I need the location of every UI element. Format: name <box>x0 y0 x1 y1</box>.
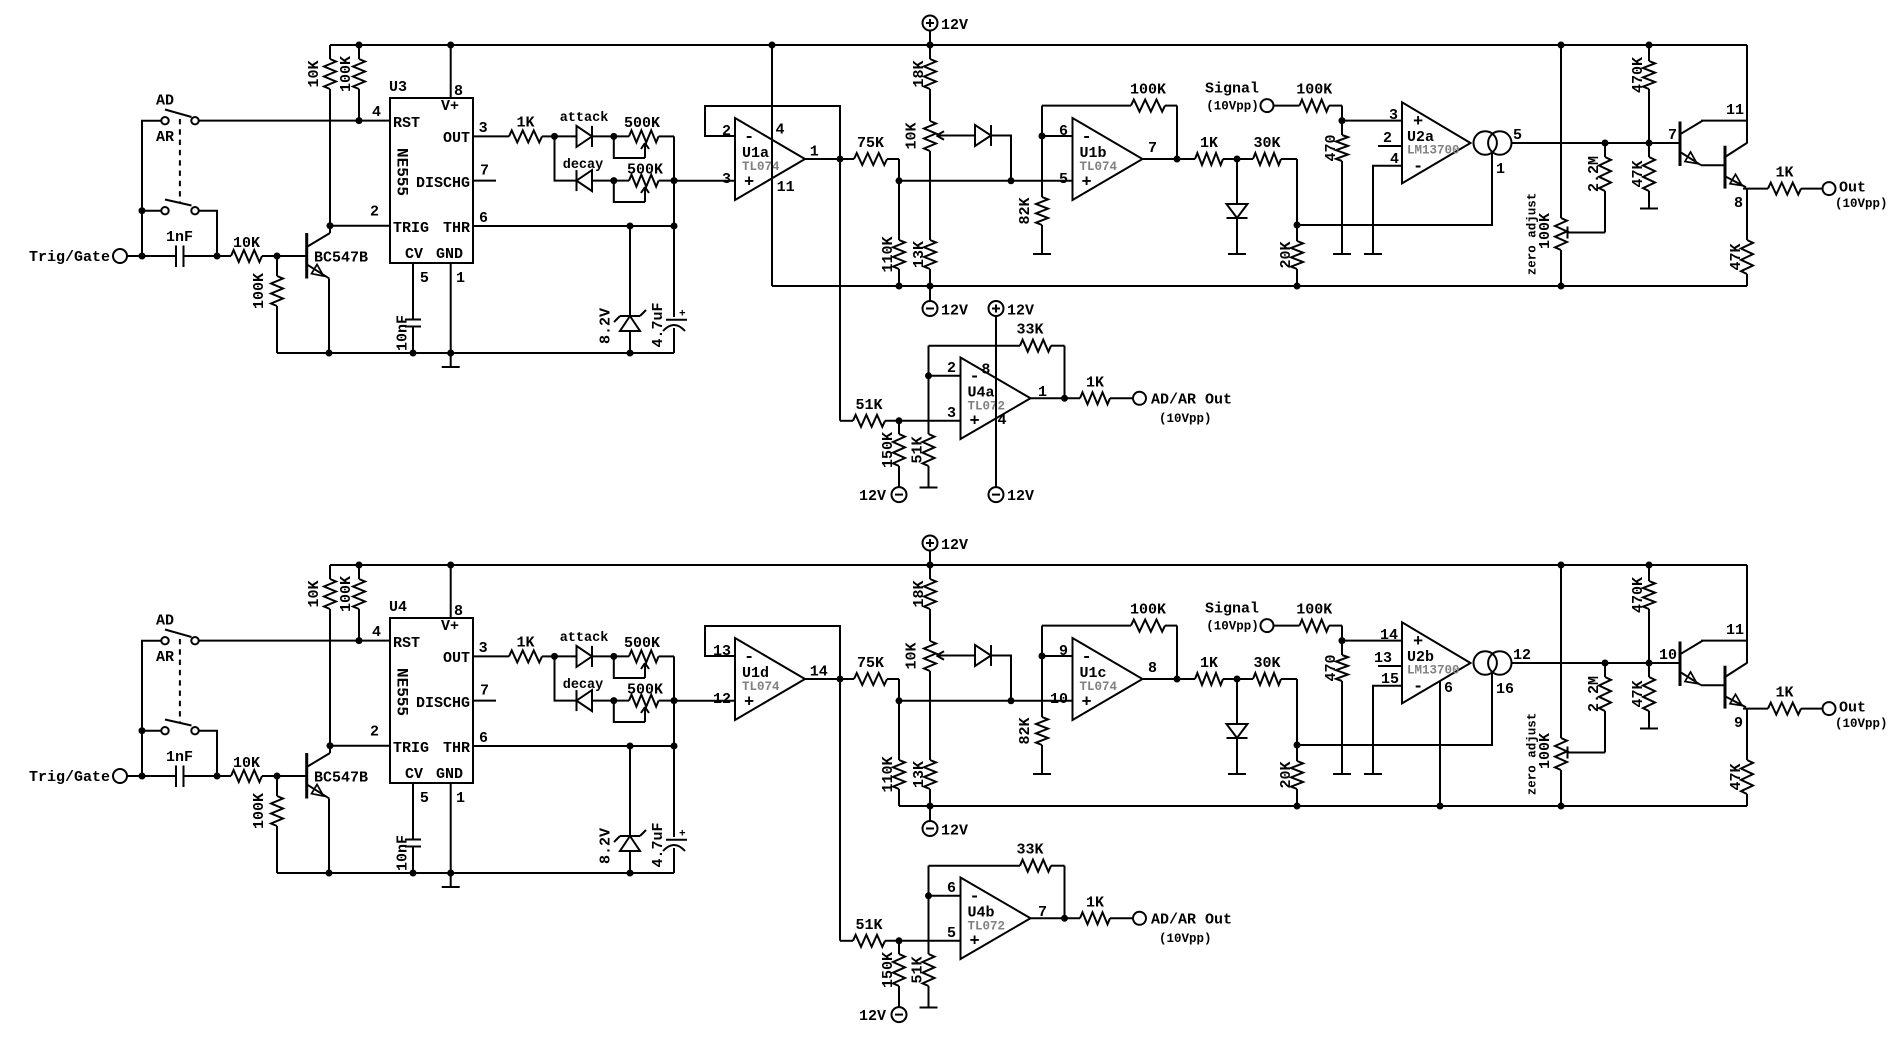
resistor 10K base <box>231 755 262 782</box>
op-amp U4b TL072 <box>961 878 1031 960</box>
svg-text:GND: GND <box>436 766 463 783</box>
node 20K junction <box>1294 222 1301 229</box>
wire AD to RST <box>199 120 390 122</box>
node pot-rail-top <box>1558 42 1565 49</box>
capacitor 10nF <box>395 783 422 873</box>
wire cap to 10K <box>184 255 232 257</box>
resistor 20K <box>1278 225 1303 286</box>
wire input to cap <box>127 775 176 777</box>
svg-text:100K: 100K <box>338 576 355 612</box>
svg-text:100K: 100K <box>1130 602 1166 619</box>
node 470K-rail <box>1646 42 1653 49</box>
resistor 1K oa2 <box>1195 655 1237 685</box>
wire collector to TRIG <box>329 746 331 753</box>
wire TL074 power pins 4/11 <box>771 45 773 286</box>
wire +12V stub <box>929 31 931 46</box>
node 13K-rail <box>927 803 934 810</box>
wire emitter to 47K <box>1746 709 1748 760</box>
wire diode2 drop <box>1236 679 1238 724</box>
transistor buffer Q1b (pin 8 emitter) <box>1701 143 1747 189</box>
svg-text:12V: 12V <box>941 303 968 320</box>
svg-text:3: 3 <box>722 171 731 188</box>
node pot-rail-bot <box>1558 803 1565 810</box>
svg-text:THR: THR <box>443 740 470 757</box>
wire oa1 feedback loop <box>705 626 840 941</box>
node 20K junction <box>1294 742 1301 749</box>
svg-text:12V: 12V <box>941 537 968 554</box>
svg-text:13: 13 <box>1374 650 1392 667</box>
resistor 150K <box>880 421 905 487</box>
wire 75K corner <box>898 159 900 181</box>
OTA U2b LM13700 <box>1402 622 1471 703</box>
wire +12V stub <box>929 551 931 566</box>
resistor 1K adar <box>1080 374 1133 404</box>
svg-text:AD/AR Out: AD/AR Out <box>1151 392 1232 409</box>
wire 33K down <box>1064 346 1066 399</box>
node 10nF-rail <box>410 870 417 877</box>
svg-text:DISCHG: DISCHG <box>416 175 470 192</box>
wire attack-decay right vertical <box>673 136 675 317</box>
node 2.2M top <box>1602 660 1609 667</box>
svg-text:47K: 47K <box>1728 763 1745 790</box>
wire bottom rail ch <box>277 872 674 874</box>
svg-text:DISCHG: DISCHG <box>416 695 470 712</box>
wire AD to RST <box>199 640 390 642</box>
node cv-mix <box>1008 177 1015 184</box>
svg-text:4: 4 <box>776 122 785 139</box>
wire ota pin6 V- <box>1439 681 1441 806</box>
svg-text:5: 5 <box>1059 171 1068 188</box>
svg-text:V+: V+ <box>441 618 459 635</box>
wire +12V top rail <box>330 564 1747 566</box>
svg-text:9: 9 <box>1734 715 1743 732</box>
svg-text:100K: 100K <box>1296 602 1332 619</box>
wire terminal up-branch <box>142 641 161 776</box>
resistor 13K <box>911 671 936 806</box>
ground 555 <box>442 366 460 368</box>
resistor 47K base <box>1630 663 1655 729</box>
zener diode 8.2V <box>614 830 646 851</box>
transistor buffer Q2a (pin 10 base) <box>1680 641 1703 686</box>
svg-text:6: 6 <box>947 880 956 897</box>
wire signal corner <box>1341 106 1343 121</box>
node pin8-rail <box>447 562 454 569</box>
svg-text:1K: 1K <box>1200 135 1218 152</box>
terminal Trig/Gate input ch1 <box>29 249 127 266</box>
node input junction <box>139 773 146 780</box>
resistor 1K adar <box>1080 894 1133 924</box>
resistor 110K <box>880 701 905 806</box>
svg-text:12V: 12V <box>941 823 968 840</box>
node switch-drop junction <box>214 253 221 260</box>
svg-text:14: 14 <box>810 664 828 681</box>
ground 470 <box>1333 253 1351 255</box>
node signal-470 <box>1339 637 1346 644</box>
node 470K-rail <box>1646 562 1653 569</box>
resistor 33K feedback <box>929 860 1065 872</box>
svg-text:+: + <box>744 693 754 712</box>
ground 47K <box>1640 208 1658 210</box>
diode to ground <box>1227 204 1248 218</box>
wire oa1 plus input <box>674 180 735 182</box>
svg-text:10nF: 10nF <box>395 315 412 351</box>
svg-text:1: 1 <box>810 144 819 161</box>
potentiometer 500K attack <box>614 115 674 158</box>
node base junction <box>274 253 281 260</box>
svg-text:1K: 1K <box>1086 894 1104 911</box>
svg-text:470K: 470K <box>1630 577 1647 613</box>
node pin6-rail <box>1437 803 1444 810</box>
svg-text:RST: RST <box>393 115 420 132</box>
svg-text:8.2V: 8.2V <box>598 308 615 344</box>
node decay-pot-left <box>610 697 617 704</box>
svg-text:TL074: TL074 <box>742 680 780 694</box>
svg-text:2.2M: 2.2M <box>1586 156 1603 192</box>
wire feedback up <box>928 346 930 376</box>
svg-text:11: 11 <box>1726 102 1744 119</box>
wire cv diode corner <box>991 136 1011 181</box>
svg-text:1nF: 1nF <box>166 749 193 766</box>
wire u4 output <box>1031 397 1081 399</box>
potentiometer 500K attack <box>614 635 674 678</box>
svg-text:AR: AR <box>156 649 174 666</box>
node zener-THR <box>627 223 634 230</box>
svg-text:82K: 82K <box>1017 197 1034 224</box>
node u4 output <box>1061 395 1068 402</box>
svg-text:+: + <box>679 309 686 321</box>
svg-text:Signal: Signal <box>1205 601 1259 618</box>
svg-text:100K: 100K <box>1537 213 1554 249</box>
wire oa2 minus stub <box>1042 655 1073 657</box>
resistor 10K pullup <box>306 565 336 746</box>
wire AR to cap-node <box>199 731 217 776</box>
wire feedback down <box>1176 106 1178 159</box>
node input junction <box>139 253 146 260</box>
svg-text:+: + <box>1082 693 1092 712</box>
op-amp U1d TL074 <box>735 638 805 720</box>
node AR branch junction <box>139 727 146 734</box>
svg-text:1K: 1K <box>1086 374 1104 391</box>
svg-text:LM13700: LM13700 <box>1407 144 1460 158</box>
svg-text:4: 4 <box>998 412 1007 429</box>
svg-text:30K: 30K <box>1253 135 1280 152</box>
svg-text:zero adjust: zero adjust <box>1526 713 1540 796</box>
svg-text:51K: 51K <box>910 436 927 463</box>
ground diode <box>1228 773 1246 775</box>
wire diode2 to gnd <box>1236 738 1238 774</box>
node zener-rail <box>627 350 634 357</box>
svg-text:150K: 150K <box>880 952 897 988</box>
svg-text:500K: 500K <box>627 682 663 699</box>
dashed switch link <box>179 119 181 202</box>
svg-text:10K: 10K <box>233 755 260 772</box>
svg-text:14: 14 <box>1380 627 1398 644</box>
resistor 47K emitter <box>1728 709 1753 806</box>
node 100K-top <box>356 562 363 569</box>
node attack-pot-left <box>610 133 617 140</box>
ground 51K <box>920 487 938 489</box>
resistor 47K emitter <box>1728 189 1753 286</box>
svg-text:LM13700: LM13700 <box>1407 664 1460 678</box>
svg-text:-: - <box>1413 158 1423 177</box>
node decay-out <box>671 697 678 704</box>
svg-text:U3: U3 <box>389 79 407 96</box>
wire ota minus <box>1373 166 1402 254</box>
node 470K bottom <box>1646 140 1653 147</box>
resistor 1K out <box>1768 685 1823 715</box>
power -12V U4 <box>989 487 1035 505</box>
node mix <box>896 177 903 184</box>
wire decay branch down <box>555 136 577 180</box>
OTA U2a LM13700 <box>1402 102 1471 183</box>
ground 555 <box>442 886 460 888</box>
svg-text:47K: 47K <box>1630 160 1647 187</box>
wire TRIG pin2 <box>330 745 390 747</box>
diode cv <box>975 645 991 666</box>
resistor 100K to rail2 <box>251 256 283 353</box>
svg-text:1K: 1K <box>516 634 534 651</box>
wiper tick <box>1567 227 1569 239</box>
wire V+ drop <box>1746 45 1748 143</box>
svg-text:75K: 75K <box>857 655 884 672</box>
svg-text:GND: GND <box>436 246 463 263</box>
OTA output symbol <box>1474 131 1512 154</box>
svg-text:10: 10 <box>1050 691 1068 708</box>
wire oa2 minus stub <box>1042 135 1073 137</box>
wire emitter node <box>1743 708 1768 710</box>
svg-text:11: 11 <box>777 179 795 196</box>
svg-text:8: 8 <box>1148 660 1157 677</box>
svg-text:3: 3 <box>479 640 488 657</box>
node 1K-diodes <box>551 133 558 140</box>
svg-text:5: 5 <box>420 270 429 287</box>
svg-text:(10Vpp): (10Vpp) <box>1206 619 1259 633</box>
svg-text:AR: AR <box>156 129 174 146</box>
svg-text:TL074: TL074 <box>1080 680 1118 694</box>
resistor 10K pullup <box>306 45 336 226</box>
wire emitter to rail2 <box>328 278 330 353</box>
wire u4 output <box>1031 917 1081 919</box>
wire oa2 output <box>1143 158 1195 160</box>
node oa1 output-feedback <box>837 676 844 683</box>
wire V+ drop <box>1746 565 1748 663</box>
svg-text:(10Vpp): (10Vpp) <box>1206 99 1259 113</box>
svg-text:51K: 51K <box>855 917 882 934</box>
power -12V mid <box>923 821 969 840</box>
wire decay diode to pot <box>592 700 629 702</box>
svg-text:12V: 12V <box>859 1008 886 1025</box>
svg-text:12V: 12V <box>1007 303 1034 320</box>
svg-text:10K: 10K <box>904 122 921 149</box>
svg-text:10nF: 10nF <box>395 835 412 871</box>
node decay-pot-left <box>610 177 617 184</box>
power -12V mid <box>923 301 969 320</box>
node plus-junction <box>896 937 903 944</box>
svg-text:75K: 75K <box>857 135 884 152</box>
resistor 75K <box>854 655 899 685</box>
resistor 1K out555 <box>473 634 555 662</box>
svg-text:100K: 100K <box>1537 733 1554 769</box>
node 12V-rail <box>927 562 934 569</box>
svg-text:Trig/Gate: Trig/Gate <box>29 769 110 786</box>
svg-text:Out: Out <box>1839 180 1866 197</box>
diode attack <box>577 646 593 667</box>
svg-text:33K: 33K <box>1016 842 1043 859</box>
svg-text:500K: 500K <box>624 635 660 652</box>
svg-text:1K: 1K <box>1775 685 1793 702</box>
svg-text:1: 1 <box>456 790 465 807</box>
wire ota bias line <box>1297 673 1492 745</box>
wire THR pin6 <box>473 745 674 747</box>
svg-text:13K: 13K <box>911 761 928 788</box>
svg-text:8: 8 <box>454 603 463 620</box>
switch AD <box>161 110 198 125</box>
ota pin stub <box>1378 145 1402 147</box>
capacitor 1nF <box>166 749 193 787</box>
svg-text:82K: 82K <box>1017 717 1034 744</box>
svg-text:100K: 100K <box>338 56 355 92</box>
svg-text:470K: 470K <box>1630 57 1647 93</box>
node pot-rail-top <box>1558 562 1565 569</box>
svg-text:12V: 12V <box>941 17 968 34</box>
wire to attack diode <box>555 135 577 137</box>
switch AD <box>161 630 198 645</box>
wire decay branch down <box>555 656 577 700</box>
capacitor 1nF <box>166 229 193 267</box>
wire diode2 drop <box>1236 159 1238 204</box>
svg-text:1: 1 <box>1496 161 1505 178</box>
power -12V for 150K <box>859 487 907 505</box>
terminal Trig/Gate input ch2 <box>29 769 127 786</box>
wire cap to 10K <box>184 775 232 777</box>
svg-text:5: 5 <box>420 790 429 807</box>
wire TRIG pin2 <box>330 225 390 227</box>
svg-text:51K: 51K <box>910 956 927 983</box>
svg-text:AD: AD <box>156 613 174 630</box>
wire zener drop <box>629 226 631 316</box>
node minus-junction <box>925 892 932 899</box>
wire attack diode to pot <box>592 655 629 657</box>
pin 7 DISCHG stub <box>473 180 496 182</box>
wire feedback up <box>928 866 930 896</box>
resistor 82K <box>1017 656 1048 774</box>
node switch-drop junction <box>214 773 221 780</box>
svg-text:7: 7 <box>1148 140 1157 157</box>
wire oa1 output <box>805 158 854 160</box>
IC U4 NE555 timer <box>389 599 473 783</box>
diode decay <box>577 690 593 711</box>
wire zener drop <box>629 746 631 836</box>
op-amp U4a TL072 <box>961 358 1031 440</box>
wire V+ pin8 drop <box>995 316 997 487</box>
wire oa2 output <box>1143 678 1195 680</box>
node pin8-rail <box>447 42 454 49</box>
svg-text:attack: attack <box>560 111 609 126</box>
ground 47K <box>1640 728 1658 730</box>
wire attack-decay right vertical <box>673 656 675 837</box>
node 10nF-rail <box>410 350 417 357</box>
zener diode 8.2V <box>614 310 646 331</box>
resistor 470K <box>1630 45 1655 143</box>
ground 82K <box>1033 773 1051 775</box>
svg-text:NE555: NE555 <box>393 668 411 716</box>
resistor 2.2M <box>1586 663 1611 753</box>
svg-text:51K: 51K <box>855 397 882 414</box>
svg-text:2: 2 <box>722 123 731 140</box>
node u4 output <box>1061 915 1068 922</box>
IC U3 NE555 timer <box>389 79 473 263</box>
svg-text:6: 6 <box>1444 680 1453 697</box>
wire zener to rail <box>629 851 631 873</box>
node emitter-rail <box>326 350 333 357</box>
power +12V U4 <box>989 301 1035 320</box>
svg-text:V+: V+ <box>441 98 459 115</box>
wire bottom rail ch <box>277 352 674 354</box>
node oa2 out <box>1174 156 1181 163</box>
transistor buffer Q2b (pin 9 emitter) <box>1701 663 1747 709</box>
wire mix line <box>899 180 1073 182</box>
svg-text:2.2M: 2.2M <box>1586 676 1603 712</box>
svg-text:4.7uF: 4.7uF <box>650 302 667 347</box>
resistor 1K out <box>1768 165 1823 195</box>
wire attack diode to pot <box>592 135 629 137</box>
node 1K-30K <box>1234 156 1241 163</box>
wire V+ pin8 stub <box>450 565 452 618</box>
node oa1 output-feedback <box>837 156 844 163</box>
svg-text:4: 4 <box>372 624 381 641</box>
wire 2.2M to wiper <box>1567 232 1605 234</box>
svg-text:20K: 20K <box>1278 241 1295 268</box>
node base junction <box>274 773 281 780</box>
svg-text:500K: 500K <box>627 162 663 179</box>
svg-text:30K: 30K <box>1253 655 1280 672</box>
node 20K-rail <box>1294 803 1301 810</box>
svg-text:7: 7 <box>480 683 489 700</box>
svg-text:THR: THR <box>443 220 470 237</box>
wire V+ pin8 stub <box>450 45 452 98</box>
ground ota minus <box>1364 253 1382 255</box>
node TRIG junction <box>327 222 334 229</box>
svg-text:1K: 1K <box>1200 655 1218 672</box>
svg-text:1K: 1K <box>516 114 534 131</box>
terminal Out <box>1823 180 1888 212</box>
svg-text:33K: 33K <box>1016 322 1043 339</box>
svg-text:TRIG: TRIG <box>393 740 429 757</box>
svg-text:110K: 110K <box>880 236 897 272</box>
resistor 100K signal <box>1274 602 1343 632</box>
node mix <box>896 697 903 704</box>
wire oa2 feedback up <box>1041 106 1043 136</box>
resistor 1K out555 <box>473 114 555 142</box>
node 2.2M top <box>1602 140 1609 147</box>
node 100K-RST <box>356 117 363 124</box>
svg-text:1K: 1K <box>1775 165 1793 182</box>
svg-text:150K: 150K <box>880 432 897 468</box>
svg-text:BC547B: BC547B <box>314 250 368 267</box>
svg-text:8: 8 <box>454 83 463 100</box>
svg-text:+: + <box>744 173 754 192</box>
svg-text:5: 5 <box>947 925 956 942</box>
svg-text:TL074: TL074 <box>742 160 780 174</box>
svg-text:470: 470 <box>1323 134 1340 161</box>
wire 75K corner <box>898 679 900 701</box>
wire decay diode to pot <box>592 180 629 182</box>
node power-rail <box>769 42 776 49</box>
potentiometer 500K decay <box>614 682 674 723</box>
wire -12V rail <box>772 285 1747 287</box>
svg-text:+: + <box>679 829 686 841</box>
svg-text:10: 10 <box>1659 647 1677 664</box>
